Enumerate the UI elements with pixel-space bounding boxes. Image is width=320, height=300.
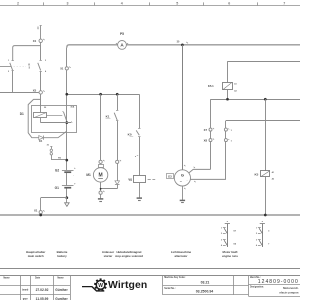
- svg-text:W: W: [98, 283, 103, 289]
- svg-text:bearb: bearb: [22, 290, 29, 292]
- svg-text:P5: P5: [120, 32, 124, 36]
- svg-text:M1: M1: [86, 173, 91, 177]
- svg-text:starter: starter: [104, 254, 114, 258]
- svg-text:main switch: main switch: [28, 254, 44, 258]
- svg-text:alternator: alternator: [175, 254, 189, 258]
- svg-text:03.2500.94: 03.2500.94: [196, 289, 214, 293]
- svg-text:G2: G2: [55, 169, 59, 173]
- svg-text:X5: X5: [33, 89, 37, 93]
- svg-text:-: -: [187, 179, 188, 182]
- svg-text:D1: D1: [20, 112, 24, 116]
- svg-text:Name: Name: [57, 278, 64, 280]
- svg-text:1: 1: [221, 228, 222, 230]
- svg-text:Serial No.:: Serial No.:: [164, 288, 176, 290]
- svg-text:6: 6: [228, 2, 230, 6]
- svg-text:30A: 30A: [70, 106, 74, 109]
- svg-text:03.21: 03.21: [201, 280, 210, 284]
- svg-text:Günther: Günther: [55, 288, 68, 292]
- svg-text:A2: A2: [272, 177, 274, 180]
- svg-text:2: 2: [221, 233, 222, 235]
- svg-text:G3: G3: [168, 174, 172, 178]
- svg-text:X1: X1: [34, 208, 38, 212]
- svg-text:M: M: [99, 173, 103, 179]
- svg-text:Y0: Y0: [128, 178, 132, 182]
- svg-text:A2: A2: [234, 89, 236, 92]
- svg-text:124809-0000 00: 124809-0000 00: [258, 279, 300, 285]
- svg-text:Wirtgen: Wirtgen: [108, 280, 147, 291]
- svg-text:engine runs: engine runs: [222, 254, 238, 258]
- svg-text:K1: K1: [106, 115, 110, 119]
- svg-text:Date: Date: [35, 277, 41, 280]
- svg-text:X7: X7: [204, 128, 208, 132]
- svg-text:K5: K5: [254, 172, 258, 176]
- svg-text:battery: battery: [57, 254, 67, 258]
- svg-text:stop engine solenoid: stop engine solenoid: [115, 254, 143, 258]
- svg-text:X1: X1: [60, 67, 64, 71]
- svg-text:4: 4: [121, 2, 123, 6]
- svg-text:Machine Key Code:: Machine Key Code:: [164, 277, 185, 279]
- svg-text:3: 3: [67, 2, 69, 6]
- svg-text:X8: X8: [204, 138, 208, 142]
- svg-text:K0: K0: [128, 132, 132, 136]
- svg-text:G1: G1: [55, 186, 59, 190]
- svg-text:Name: Name: [3, 278, 10, 280]
- svg-text:A1: A1: [234, 82, 236, 85]
- svg-text:K5.1: K5.1: [208, 84, 214, 88]
- svg-text:A1: A1: [272, 171, 274, 174]
- svg-text:2: 2: [17, 2, 19, 6]
- svg-text:5: 5: [176, 2, 178, 6]
- svg-text:3: 3: [256, 240, 257, 242]
- svg-text:2: 2: [256, 233, 257, 235]
- svg-text:1: 1: [256, 228, 257, 230]
- svg-text:X1: X1: [33, 39, 37, 43]
- svg-text:electr compon: electr compon: [279, 291, 298, 295]
- svg-text:D4: D4: [39, 139, 43, 143]
- svg-text:3: 3: [221, 240, 222, 242]
- svg-text:Designation:: Designation:: [250, 285, 264, 288]
- svg-text:Motorverdr.: Motorverdr.: [283, 286, 299, 290]
- svg-text:G: G: [181, 173, 184, 178]
- svg-text:27.02.92: 27.02.92: [36, 288, 49, 292]
- svg-text:7: 7: [283, 2, 285, 6]
